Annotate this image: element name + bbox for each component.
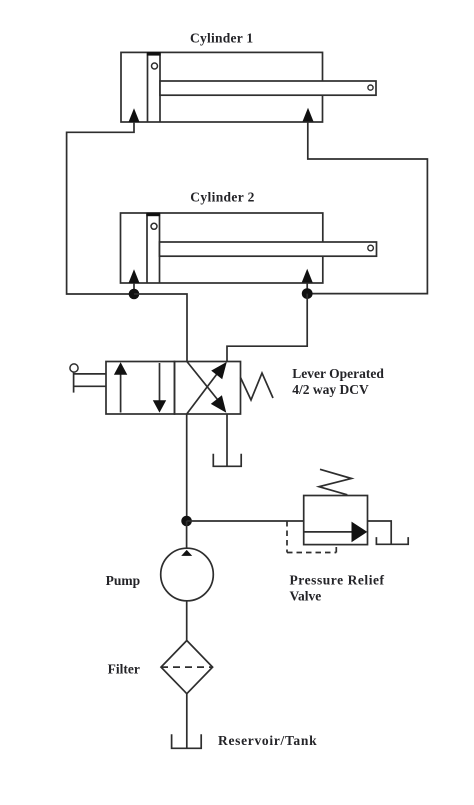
pump P1 circle (161, 548, 214, 601)
wire cyl2 left port stem (133, 283, 135, 294)
cylinder Cylinder2 piston (146, 213, 160, 283)
wire A-net to valve port A (134, 294, 187, 362)
valve U1 4/2 DCV left position box (106, 362, 175, 415)
wire relief valve outlet to tank (368, 521, 392, 544)
relief valve pilot line (dashed) (287, 521, 336, 553)
reservoir tank symbol (172, 734, 202, 748)
filter F1 element (dashed) (161, 666, 213, 668)
cylinder Cylinder1 piston circle (152, 63, 158, 69)
junction node P (pump junction dot) (181, 516, 192, 527)
valve U1 left box down arrow (153, 363, 166, 413)
svg-text:Pump: Pump (106, 573, 141, 588)
wire pump to filter (186, 601, 188, 641)
wire valve port P to junction (186, 414, 188, 521)
wire cyl1 left port to A-net (67, 122, 134, 294)
wire valve port T to drain (226, 414, 228, 466)
svg-text:Cylinder 1: Cylinder 1 (190, 31, 253, 46)
wire filter to reservoir (186, 694, 188, 749)
valve U1 return spring (241, 373, 274, 400)
cylinder Cylinder2 piston circle (151, 223, 157, 229)
filter F1 diamond (161, 641, 213, 694)
cylinder Cylinder1 piston (147, 52, 161, 122)
svg-text:Pressure Relief: Pressure Relief (290, 572, 385, 587)
valve U1 crossed path arrow down-right (187, 362, 226, 413)
cylinder Cylinder1 body (121, 52, 323, 122)
relief valve RV1 spring (319, 469, 352, 495)
relief valve RV1 body box (304, 496, 368, 545)
wire junction to pump (186, 521, 188, 548)
valve drain tank symbol (213, 454, 241, 467)
valve U1 lever operator (70, 364, 106, 393)
valve U1 4/2 DCV right position box (175, 362, 241, 415)
cylinder Cylinder2 right port arrow (302, 269, 313, 283)
svg-text:Cylinder 2: Cylinder 2 (190, 190, 254, 205)
valve U1 crossed path arrow up-right (187, 362, 227, 414)
relief valve RV1 flow arrow (304, 522, 368, 543)
valve U1 left box up arrow (114, 362, 127, 412)
relief valve tank symbol (376, 537, 408, 544)
svg-text:4/2 way DCV: 4/2 way DCV (292, 382, 369, 397)
cylinder Cylinder2 rod end circle (368, 245, 374, 251)
wire cyl1 right port loop to B-net (308, 122, 428, 294)
svg-text:Valve: Valve (290, 588, 322, 603)
pump P1 outlet triangle (181, 550, 192, 556)
cylinder Cylinder2 left port arrow (129, 269, 140, 283)
svg-text:Lever Operated: Lever Operated (292, 366, 384, 381)
cylinder Cylinder1 left port arrow (129, 108, 140, 122)
wire junction to relief valve inlet (187, 520, 304, 522)
wire B-net to valve port B (227, 294, 307, 362)
svg-text:Reservoir/Tank: Reservoir/Tank (218, 733, 317, 748)
cylinder Cylinder1 rod end circle (368, 85, 373, 90)
svg-text:Filter: Filter (108, 662, 140, 677)
cylinder Cylinder1 rod (160, 81, 376, 95)
cylinder Cylinder1 right port arrow (303, 108, 314, 122)
junction node B (right dot) (302, 288, 313, 299)
cylinder Cylinder2 rod (160, 242, 377, 256)
junction node A (left dot) (129, 289, 140, 300)
cylinder Cylinder2 body (121, 213, 323, 283)
wire cyl2 right port stem (306, 283, 308, 294)
